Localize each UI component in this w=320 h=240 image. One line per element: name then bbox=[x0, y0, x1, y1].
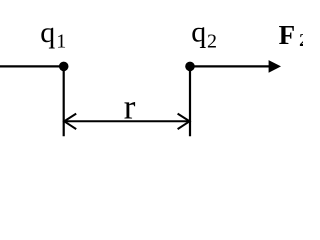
force vector F21 shaft from q2 bbox=[190, 65, 270, 67]
wire vertical drop from q2 bbox=[189, 66, 191, 136]
svg-text:q1: q1 bbox=[40, 16, 66, 52]
svg-text:r: r bbox=[124, 88, 136, 127]
dimension arrow r shaft bbox=[64, 120, 189, 122]
dimension arrow left barb bbox=[64, 114, 76, 130]
svg-text:F2: F2 bbox=[279, 20, 303, 50]
force vector F21 arrowhead bbox=[269, 60, 281, 73]
node q2 (charge dot) bbox=[185, 62, 195, 72]
wire left lead into q1 bbox=[0, 65, 64, 67]
wire vertical drop from q1 bbox=[63, 66, 65, 136]
node q1 (charge dot) bbox=[59, 62, 69, 72]
svg-text:q2: q2 bbox=[191, 16, 217, 53]
dimension arrow right barb bbox=[178, 114, 190, 130]
